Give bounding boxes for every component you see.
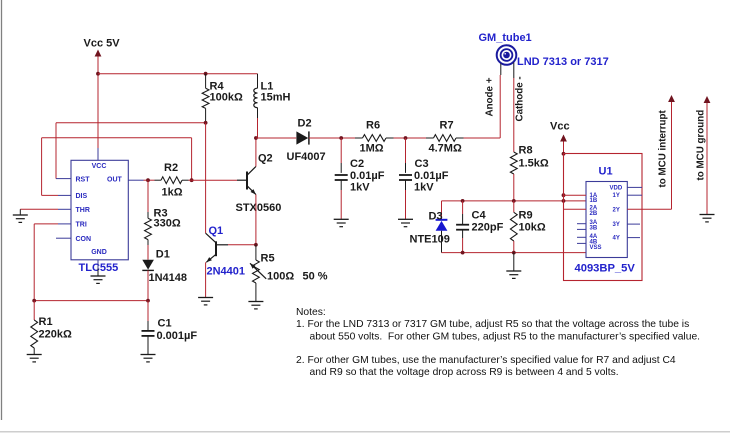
label C3	[415, 158, 429, 170]
node junction R2 right / Q2 base	[190, 178, 194, 182]
wire THR to ground	[20, 208, 58, 210]
svg-text:1.5kΩ: 1.5kΩ	[519, 158, 549, 170]
svg-text:Cathode -: Cathode -	[515, 76, 526, 121]
label R8 value 1.5k&#937;	[519, 158, 549, 170]
label R4	[210, 81, 225, 93]
label Anode +	[485, 77, 496, 116]
ground MCU	[700, 215, 715, 222]
label C3 value 0.01&#181;F	[414, 170, 449, 182]
node junction Vcc box corner	[562, 152, 566, 156]
svg-text:Anode +: Anode +	[485, 77, 496, 116]
wire OUT to R2	[144, 179, 162, 181]
ground R5	[248, 302, 263, 309]
node junction D1 C1	[146, 299, 150, 303]
pin stub U1 VDD	[627, 186, 642, 188]
svg-text:1kΩ: 1kΩ	[162, 187, 183, 199]
pin stub TRI	[58, 223, 71, 225]
resistor R3	[145, 218, 152, 239]
svg-text:2B: 2B	[590, 211, 598, 217]
ground R1	[27, 355, 42, 362]
svg-text:CON: CON	[76, 236, 92, 243]
pin stub U1 4Y	[627, 237, 640, 239]
node junction R8 R9	[512, 199, 516, 203]
svg-text:THR: THR	[76, 207, 90, 214]
label C4 value 220pF	[472, 222, 504, 234]
svg-text:GM_tube1: GM_tube1	[479, 32, 532, 44]
label C2 rating 1kV	[350, 182, 370, 194]
node junction Vcc rail	[96, 72, 100, 76]
svg-text:1MΩ: 1MΩ	[360, 143, 384, 155]
ground C2	[334, 219, 349, 226]
pin OUT text	[107, 176, 123, 183]
wire R8 to node rail	[513, 174, 515, 201]
svg-text:STX0560: STX0560	[236, 202, 282, 214]
svg-text:1Y: 1Y	[613, 193, 620, 199]
svg-text:R9: R9	[519, 210, 533, 222]
svg-text:220pF: 220pF	[472, 222, 504, 234]
svg-text:Vcc 5V: Vcc 5V	[84, 38, 121, 50]
pin GM tube cathode	[513, 63, 515, 79]
label D2 value UF4007	[287, 151, 326, 163]
svg-text:3B: 3B	[590, 225, 598, 231]
resistor R2	[161, 177, 182, 184]
label R3 value 330&#937;	[154, 218, 181, 230]
note text block	[296, 307, 700, 378]
wire node rail y201	[442, 200, 587, 202]
svg-text:1kV: 1kV	[350, 182, 370, 194]
pin labels U1 left column	[590, 193, 602, 251]
svg-text:4Y: 4Y	[613, 236, 620, 242]
svg-text:2N4401: 2N4401	[207, 266, 246, 278]
wire DIS riser x41.6	[41, 138, 43, 196]
wire subcircuit box outline	[564, 154, 643, 281]
capacitor C2	[335, 138, 348, 219]
label R3	[154, 208, 168, 220]
ground TLC555 GND	[91, 269, 106, 284]
node junction Vcc 1A	[562, 193, 566, 197]
label D1	[156, 249, 170, 261]
label R2 value 1k&#937;	[162, 187, 183, 199]
label R5 setting 50 %	[303, 271, 328, 283]
svg-text:VSS: VSS	[590, 245, 602, 251]
label to MCU interrupt	[658, 109, 669, 187]
wire Vcc vertical to 555 VCC pin	[97, 148, 99, 160]
pin DIS text	[76, 193, 88, 200]
svg-text:U1: U1	[599, 166, 613, 178]
wire Q1 base to R5 node	[228, 244, 256, 246]
label C1	[158, 318, 172, 330]
label R5	[261, 253, 275, 265]
wire bottom rail y300	[34, 300, 148, 302]
pin stub U1 1A	[564, 194, 587, 196]
label C4	[472, 210, 487, 222]
svg-text:OUT: OUT	[107, 176, 123, 183]
node junction Vcc drop rail	[562, 199, 566, 203]
svg-text:Vcc: Vcc	[550, 121, 570, 133]
label D3 value NTE109	[410, 234, 450, 246]
pin stub DIS	[58, 194, 71, 196]
svg-text:C1: C1	[158, 318, 172, 330]
label Q1 value 2N4401	[207, 266, 246, 278]
node junction R9 bottom	[512, 251, 516, 255]
capacitor C3	[399, 138, 412, 219]
pin stub OUT	[128, 179, 143, 181]
label TLC555	[79, 262, 119, 274]
svg-text:D2: D2	[298, 118, 312, 130]
pin TRI text	[76, 222, 87, 229]
svg-text:1kV: 1kV	[414, 182, 434, 194]
svg-text:to MCU ground: to MCU ground	[696, 110, 707, 181]
label GM tube type LND 7313 or 7317	[517, 56, 609, 68]
label R5 value 100&#937;	[267, 271, 294, 283]
svg-text:220kΩ: 220kΩ	[39, 329, 72, 341]
wire TRI riser x34	[33, 224, 35, 301]
svg-text:15mH: 15mH	[261, 92, 291, 104]
pin stub GND	[97, 260, 99, 270]
label Q1	[209, 225, 224, 237]
resistor R8	[510, 152, 517, 174]
label U1 value 4093BP_5V	[575, 263, 636, 275]
label R1	[39, 316, 53, 328]
pin stub U1 3Y	[627, 223, 640, 225]
wire R6 to R7	[386, 137, 434, 139]
wire D2 to R6	[309, 137, 363, 139]
wire DIS horizontal y138	[42, 137, 192, 139]
svg-text:330Ω: 330Ω	[154, 218, 181, 230]
node junction Q1 base R5	[254, 243, 258, 247]
svg-text:1. For the LND 7313 or 7317 GM: 1. For the LND 7313 or 7317 GM tube, adj…	[296, 319, 689, 330]
svg-text:Q2: Q2	[258, 153, 273, 165]
potentiometer R5	[250, 245, 266, 302]
label C2 value 0.01&#181;F	[350, 170, 385, 182]
wire Q1 emitter to ground	[205, 262, 207, 297]
wire Q2 emitter down	[255, 195, 257, 245]
inductor L1	[254, 74, 258, 138]
op-amp U2 TLC555 box	[71, 160, 128, 259]
wire cathode to R8	[513, 78, 515, 152]
svg-text:VCC: VCC	[92, 163, 107, 170]
transistor Q2	[237, 167, 256, 195]
capacitor C4	[456, 201, 469, 253]
label R7 value 4.7M&#937;	[429, 143, 462, 155]
node junction R4 top	[204, 72, 208, 76]
label R6	[366, 120, 380, 132]
svg-text:D1: D1	[156, 249, 170, 261]
label Cathode -	[515, 76, 526, 121]
svg-text:1N4148: 1N4148	[149, 272, 188, 284]
svg-text:R7: R7	[440, 120, 454, 132]
frame left border	[1, 0, 3, 420]
svg-text:DIS: DIS	[76, 193, 88, 200]
power to-MCU-interrupt arrow	[668, 95, 675, 102]
node Vcc 5V label	[84, 38, 121, 50]
svg-text:3Y: 3Y	[613, 222, 620, 228]
power to-MCU-ground arrow	[704, 96, 711, 103]
frame bottom border	[0, 431, 730, 433]
node junction R4 bottom	[204, 121, 208, 125]
pin THR text	[76, 207, 90, 214]
svg-text:R1: R1	[39, 316, 53, 328]
svg-text:2. For other GM tubes, use the: 2. For other GM tubes, use the manufactu…	[296, 355, 676, 366]
wire R2 to base junction	[182, 179, 192, 181]
label C1 value 0.001&#181;F	[157, 330, 198, 342]
ground R9 rail	[506, 253, 521, 279]
node junction C3 tap	[404, 136, 408, 140]
diode D2	[296, 131, 309, 144]
svg-text:and R9 so that the voltage dro: and R9 so that the voltage drop across R…	[310, 367, 619, 378]
wire R4 bottom rail y123	[56, 122, 206, 124]
pin CON text	[76, 236, 92, 243]
wire Q2 collector to D2	[256, 137, 296, 139]
node junction C2 tap	[339, 136, 343, 140]
label C2	[350, 158, 364, 170]
pin GM tube anode	[500, 64, 502, 76]
pin stub CON	[56, 237, 71, 239]
svg-text:100Ω: 100Ω	[267, 271, 294, 283]
pin stub THR	[58, 208, 71, 210]
pin GND text	[91, 249, 107, 256]
label D2	[298, 118, 312, 130]
svg-text:10kΩ: 10kΩ	[519, 222, 546, 234]
label C3 rating 1kV	[414, 182, 434, 194]
svg-text:0.001µF: 0.001µF	[157, 330, 198, 342]
pin stubs U1 floating 3A 3B 4A 4B	[577, 224, 586, 244]
svg-text:to MCU interrupt: to MCU interrupt	[658, 109, 669, 187]
wire to MCU ground	[706, 103, 708, 215]
GM tube GM_tube1 symbol	[497, 45, 517, 65]
svg-text:LND 7313 or 7317: LND 7313 or 7317	[517, 56, 609, 68]
svg-text:R6: R6	[366, 120, 380, 132]
resistor R7	[434, 135, 457, 142]
wire DIS drop to base x191.6	[191, 138, 193, 180]
node Vcc label right	[550, 121, 570, 133]
svg-text:TRI: TRI	[76, 222, 87, 229]
resistor R4	[202, 74, 209, 123]
svg-text:D3: D3	[429, 211, 443, 223]
svg-text:NTE109: NTE109	[410, 234, 450, 246]
resistor R9	[510, 201, 517, 253]
transistor Q1	[206, 233, 228, 262]
svg-text:R5: R5	[261, 253, 275, 265]
diode D1	[142, 260, 154, 271]
svg-text:0.01µF: 0.01µF	[414, 170, 449, 182]
label Q2	[258, 153, 273, 165]
label R1 value 220k&#937;	[39, 329, 72, 341]
pin labels U1 right column	[610, 185, 623, 241]
svg-text:50 %: 50 %	[303, 271, 328, 283]
svg-text:GND: GND	[91, 249, 107, 256]
label GM_tube1	[479, 32, 532, 44]
label R6 value 1M&#937;	[360, 143, 384, 155]
svg-text:about 550 volts. For other GM: about 550 volts. For other GM tubes, adj…	[310, 331, 701, 342]
power Vcc 5V arrow	[95, 50, 102, 149]
label R7	[440, 120, 454, 132]
wire L1 to Q2 collector	[255, 138, 257, 167]
label R9 value 10k&#937;	[519, 222, 546, 234]
label L1 value 15mH	[261, 92, 291, 104]
capacitor C1	[142, 301, 155, 355]
pin stub U1 2A	[564, 208, 587, 210]
power Vcc arrow right	[560, 135, 567, 154]
node junction C4 top	[461, 199, 465, 203]
svg-text:RST: RST	[76, 176, 91, 183]
wire R3 top	[147, 180, 149, 218]
wire TRI horizontal	[34, 223, 58, 225]
svg-text:100kΩ: 100kΩ	[210, 92, 243, 104]
label to MCU ground	[696, 110, 707, 181]
svg-text:R8: R8	[519, 145, 533, 157]
wire Vcc rail y74	[98, 73, 258, 75]
wire VSS rail y253	[442, 252, 587, 254]
label R2	[164, 162, 178, 174]
pin stub U1 1Y	[627, 194, 642, 196]
svg-text:VDD: VDD	[610, 185, 623, 191]
svg-text:C4: C4	[472, 210, 487, 222]
wire R3 to D1	[147, 240, 149, 260]
wire Q1 collector riser x206	[205, 123, 207, 233]
svg-text:C2: C2	[350, 158, 364, 170]
pin VCC text	[92, 163, 107, 170]
label D1 value 1N4148	[149, 272, 188, 284]
wire D3 top	[441, 201, 443, 219]
svg-text:4.7MΩ: 4.7MΩ	[429, 143, 462, 155]
label R8	[519, 145, 533, 157]
wire 2Y to MCU interrupt	[627, 102, 671, 210]
svg-text:UF4007: UF4007	[287, 151, 326, 163]
label L1	[261, 81, 274, 93]
ground THR	[13, 209, 28, 222]
ground Q1	[198, 298, 213, 305]
label R4 value 100k&#937;	[210, 92, 243, 104]
wire DIS horizontal stub	[42, 194, 58, 196]
wire D1 to bottom rail	[147, 270, 149, 300]
svg-text:Q1: Q1	[209, 225, 224, 237]
resistor R1	[31, 301, 38, 355]
ground C1	[141, 355, 156, 362]
node junction C4 bottom	[461, 251, 465, 255]
pin stub RST	[56, 178, 71, 180]
pin RST text	[76, 176, 91, 183]
label U1	[599, 166, 613, 178]
svg-text:4093BP_5V: 4093BP_5V	[575, 263, 636, 275]
node junction OUT R3	[146, 178, 150, 182]
label D3	[429, 211, 443, 223]
wire base junction to Q2	[192, 179, 237, 181]
svg-text:R2: R2	[164, 162, 178, 174]
svg-text:2Y: 2Y	[613, 207, 620, 213]
svg-text:1B: 1B	[590, 198, 598, 204]
ground C3	[398, 219, 413, 226]
label R9	[519, 210, 533, 222]
op-amp U1 box	[586, 182, 627, 258]
svg-text:C3: C3	[415, 158, 429, 170]
node junction TRI R1	[32, 299, 36, 303]
svg-text:0.01µF: 0.01µF	[350, 170, 385, 182]
wire RST riser x56	[55, 123, 57, 179]
resistor R6	[363, 135, 387, 142]
svg-text:Notes:: Notes:	[296, 307, 326, 318]
diode D3	[436, 220, 448, 253]
label Q2 value STX0560	[236, 202, 282, 214]
wire R7 to anode corner	[456, 75, 500, 138]
node junction Q2 collector D2	[254, 136, 258, 140]
